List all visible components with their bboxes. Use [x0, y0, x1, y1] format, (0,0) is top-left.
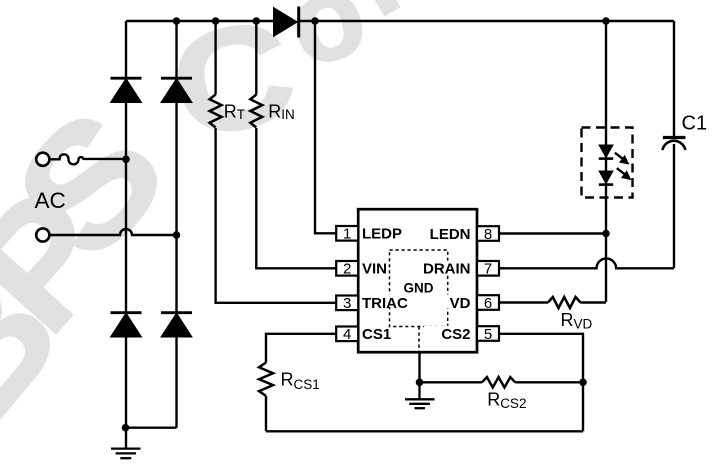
svg-text:RVD: RVD — [561, 310, 593, 332]
svg-text:8: 8 — [484, 226, 492, 243]
svg-text:C1: C1 — [682, 113, 708, 135]
svg-text:1: 1 — [343, 226, 351, 243]
svg-text:RCS2: RCS2 — [487, 390, 526, 412]
svg-text:3: 3 — [343, 295, 351, 312]
svg-text:VD: VD — [450, 295, 471, 312]
svg-text:TRIAC: TRIAC — [362, 295, 408, 312]
svg-text:DRAIN: DRAIN — [423, 261, 471, 278]
svg-text:7: 7 — [484, 261, 492, 278]
svg-text:VIN: VIN — [362, 261, 387, 278]
svg-text:RCS1: RCS1 — [281, 370, 320, 392]
svg-text:2: 2 — [343, 261, 351, 278]
svg-text:AC: AC — [35, 188, 66, 213]
svg-text:LEDN: LEDN — [430, 226, 471, 243]
svg-text:CS1: CS1 — [362, 326, 391, 343]
svg-text:6: 6 — [484, 295, 492, 312]
svg-text:CS2: CS2 — [441, 326, 470, 343]
svg-text:5: 5 — [484, 326, 492, 343]
svg-text:LEDP: LEDP — [362, 226, 402, 243]
svg-text:4: 4 — [343, 326, 351, 343]
svg-text:GND: GND — [404, 281, 434, 296]
